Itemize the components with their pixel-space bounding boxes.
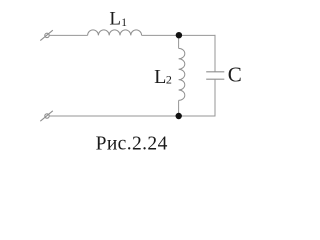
node A (top junction dot) — [176, 32, 182, 38]
node B (bottom junction dot) — [176, 113, 182, 119]
wire bottom — [49, 115, 215, 117]
capacitor C — [206, 72, 224, 79]
wire L1 to node A — [142, 34, 179, 36]
wire node A down to L2 — [178, 35, 180, 48]
svg-text:L: L — [154, 66, 166, 88]
inductor L2 — [179, 48, 185, 100]
svg-text:1: 1 — [121, 17, 127, 29]
wire capacitor to bottom right corner — [214, 79, 216, 116]
svg-text:C: C — [228, 63, 242, 87]
svg-text:Рис.2.24: Рис.2.24 — [96, 134, 168, 155]
wire L2 to node B — [178, 100, 180, 116]
wire top from terminal to L1 — [49, 34, 87, 36]
inductor L1 — [88, 30, 142, 36]
svg-text:2: 2 — [166, 73, 172, 87]
wire node A to right corner — [179, 34, 215, 36]
terminal top-left — [40, 30, 53, 40]
terminal bottom-left — [40, 111, 53, 121]
svg-text:L: L — [109, 9, 121, 30]
wire right branch down to capacitor — [214, 35, 216, 72]
